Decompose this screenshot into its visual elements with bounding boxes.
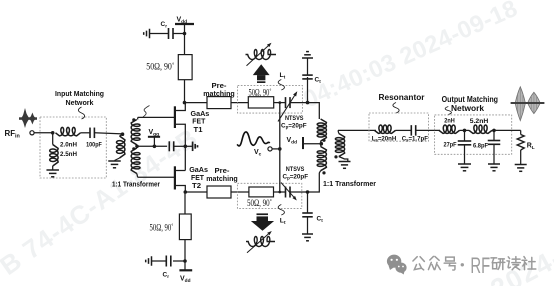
svg-text:Resonantor: Resonantor	[379, 93, 425, 102]
svg-text:27pF: 27pF	[444, 141, 457, 148]
svg-text:2.5nH: 2.5nH	[60, 151, 78, 158]
svg-text:matching: matching	[206, 174, 238, 183]
svg-text:1:1 Transformer: 1:1 Transformer	[112, 181, 160, 188]
svg-text:r: r	[167, 274, 169, 279]
svg-text:T1: T1	[194, 125, 203, 134]
svg-text:RL: RL	[527, 143, 535, 152]
svg-text:r: r	[165, 24, 167, 29]
svg-text:50Ω, 90˚: 50Ω, 90˚	[247, 198, 272, 208]
svg-text:2024-09-: 2024-09-	[486, 221, 554, 286]
svg-text:5.2nH: 5.2nH	[470, 118, 489, 125]
svg-text:Vc: Vc	[254, 149, 262, 158]
svg-text:Network: Network	[451, 104, 485, 113]
svg-text:Network: Network	[66, 98, 95, 107]
svg-text:6.8pF: 6.8pF	[473, 142, 488, 149]
svg-text:RF: RF	[470, 253, 490, 278]
svg-text:Input Matching: Input Matching	[55, 89, 104, 98]
svg-text:50Ω, 90˚: 50Ω, 90˚	[146, 61, 174, 71]
svg-text:NTSVS: NTSVS	[285, 115, 304, 122]
svg-text:Cp=20pF: Cp=20pF	[283, 173, 309, 180]
svg-text:Lt: Lt	[280, 72, 286, 81]
svg-text:NTSVS: NTSVS	[286, 166, 305, 173]
svg-text:2nH: 2nH	[444, 118, 455, 125]
svg-text:T2: T2	[192, 181, 201, 190]
svg-text:Lt: Lt	[280, 218, 286, 227]
svg-text:2.0nH: 2.0nH	[60, 142, 78, 149]
svg-text:Ls=20nH: Ls=20nH	[372, 135, 397, 142]
svg-text:Cs=1.7pF: Cs=1.7pF	[402, 135, 429, 142]
svg-text:100pF: 100pF	[86, 142, 102, 149]
svg-text:Vdd: Vdd	[287, 137, 298, 146]
svg-text:50Ω, 90˚: 50Ω, 90˚	[150, 222, 174, 232]
svg-text:Cp=20pF: Cp=20pF	[281, 122, 307, 129]
svg-text:RFin: RFin	[5, 129, 20, 140]
svg-text:t: t	[321, 218, 323, 223]
svg-text:Vdd: Vdd	[180, 276, 191, 285]
svg-text:50Ω, 90˚: 50Ω, 90˚	[249, 87, 272, 97]
svg-text:1:1 Transformer: 1:1 Transformer	[323, 181, 376, 188]
